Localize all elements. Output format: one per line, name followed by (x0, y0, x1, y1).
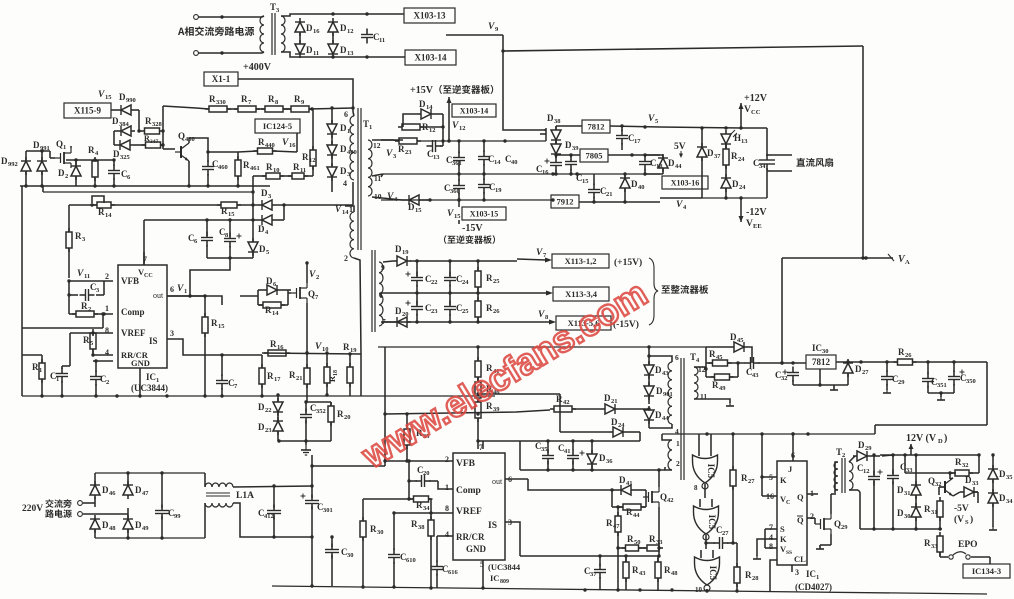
wire Q42 source (657, 507, 660, 558)
svg-text:990: 990 (126, 97, 136, 104)
node V5 (648, 114, 659, 125)
svg-text:15: 15 (454, 213, 461, 220)
svg-text:S: S (780, 524, 785, 534)
svg-text:D: D (655, 365, 662, 375)
transistor Q42 mosfet (643, 487, 674, 507)
svg-text:R: R (712, 380, 719, 390)
wire 12V label stub (909, 444, 914, 455)
wire V3 to R23 (381, 140, 399, 141)
svg-text:20: 20 (344, 414, 351, 421)
svg-text:15: 15 (105, 94, 112, 101)
cap C18 (639, 156, 663, 171)
svg-text:D: D (33, 140, 40, 150)
wire vcc hook (190, 258, 230, 296)
diode D38 inline (551, 126, 561, 144)
svg-text:R: R (370, 524, 377, 534)
svg-text:X1-1: X1-1 (212, 74, 231, 84)
resistor R26 (475, 297, 500, 321)
svg-text:X103-14: X103-14 (415, 53, 447, 63)
svg-text:): ) (944, 433, 947, 444)
diode D29 (853, 440, 872, 461)
resistor R328 (141, 116, 164, 134)
svg-text:C: C (786, 500, 790, 506)
svg-text:D: D (565, 140, 572, 150)
svg-text:V: V (315, 342, 322, 352)
svg-text:Comp: Comp (121, 307, 145, 317)
wire C2 (93, 359, 113, 397)
svg-text:X103-14: X103-14 (460, 107, 488, 116)
label +15V inverter (410, 85, 493, 96)
wire C15b (569, 153, 572, 175)
ic U2 IC809 UC3844 block (445, 443, 521, 585)
svg-text:X103-15: X103-15 (470, 210, 498, 219)
svg-text:K: K (780, 534, 787, 544)
resistor R27 (730, 466, 755, 490)
svg-text:V: V (538, 310, 545, 320)
svg-text:45: 45 (737, 337, 744, 344)
wire Q1 gate (50, 151, 55, 158)
svg-text:R: R (289, 370, 296, 380)
svg-text:24: 24 (618, 422, 625, 429)
resistor R47 (606, 512, 621, 536)
cap C351 (922, 373, 947, 390)
svg-text:(UC3844): (UC3844) (131, 383, 168, 393)
svg-text:EE: EE (753, 223, 762, 230)
diode D21 (601, 393, 619, 414)
svg-text:4: 4 (343, 179, 347, 188)
svg-text:43: 43 (639, 570, 646, 577)
svg-text:2: 2 (676, 459, 680, 468)
watermark elecfans (354, 272, 654, 476)
wire R50 R33 (616, 546, 646, 549)
svg-text:CL: CL (794, 554, 806, 564)
diode D37 zener (697, 143, 721, 161)
svg-text:D: D (604, 393, 611, 403)
svg-text:461: 461 (250, 165, 260, 172)
diode D43 (644, 361, 669, 379)
wire bottom rail (272, 584, 987, 594)
wire CD4027 Q2pin (807, 517, 815, 519)
svg-text:15: 15 (218, 323, 225, 330)
svg-text:43: 43 (752, 372, 759, 379)
svg-text:D: D (306, 23, 313, 33)
resistor R38 (411, 516, 434, 540)
wire D99x bottoms (26, 171, 42, 186)
wire Q7 source (305, 303, 308, 355)
resistor R24 (723, 145, 745, 169)
connector X113-3,4 (553, 287, 609, 301)
label -12V (746, 207, 767, 218)
ground CD4027 (753, 555, 761, 559)
resistor R49 (711, 374, 734, 392)
svg-text:15: 15 (415, 207, 422, 214)
svg-text:12: 12 (459, 125, 466, 132)
cap C12 ecap (857, 463, 883, 486)
cap C16 ecap (536, 157, 562, 177)
transformer T4 primary (668, 353, 679, 436)
cap C19 (478, 179, 502, 195)
svg-text:VFB: VFB (456, 459, 476, 469)
svg-text:616: 616 (448, 569, 459, 576)
resistor R25 (475, 267, 500, 291)
svg-text:37: 37 (714, 153, 721, 160)
wire Q32 collector net (905, 453, 981, 474)
capacitor C7a (216, 375, 238, 391)
cap C301 ecap (301, 494, 333, 515)
wire D31 D30 (915, 455, 917, 529)
svg-text:47: 47 (142, 490, 149, 497)
node V11 (77, 269, 90, 280)
diode D19 (393, 244, 411, 266)
svg-text:VREF: VREF (121, 328, 146, 338)
svg-text:1: 1 (39, 367, 42, 374)
svg-text:Q: Q (928, 476, 935, 486)
svg-text:(CD4027): (CD4027) (795, 582, 832, 592)
svg-text:D: D (58, 168, 65, 178)
rail -15 out (383, 320, 517, 323)
svg-text:351: 351 (937, 382, 947, 389)
label AC bypass 1 (45, 499, 71, 508)
wire C610 (392, 511, 395, 587)
capacitor C6b (188, 232, 213, 247)
svg-text:out: out (492, 477, 503, 486)
wire R31 (938, 501, 941, 531)
svg-text:38: 38 (418, 524, 425, 531)
wire pin7b (478, 441, 483, 449)
svg-text:R: R (664, 565, 671, 575)
wire R36b out (913, 360, 987, 363)
svg-text:34: 34 (759, 163, 766, 170)
node V12 (452, 121, 466, 132)
svg-text:42: 42 (667, 497, 674, 504)
label 12V VD (906, 433, 947, 445)
wire bridge input right (332, 33, 334, 43)
svg-text:361: 361 (452, 160, 462, 167)
svg-text:2: 2 (105, 272, 109, 281)
svg-text:D: D (858, 440, 865, 450)
svg-text:D: D (965, 475, 972, 485)
wire mid from T1 8 (380, 294, 382, 298)
cap C24 (444, 272, 469, 287)
svg-text:4: 4 (675, 427, 679, 436)
wire D6 R14 pair (240, 290, 291, 305)
svg-text:1: 1 (63, 144, 66, 151)
svg-text:47: 47 (613, 523, 620, 530)
rail V4 fan (660, 174, 702, 198)
wire R38 bottom (430, 536, 432, 588)
wire R2 to comp (69, 312, 113, 315)
capacitor C3 (80, 282, 101, 301)
svg-text:49: 49 (719, 385, 726, 392)
svg-text:D: D (258, 422, 265, 432)
svg-text:14: 14 (426, 104, 433, 111)
svg-text:8: 8 (694, 484, 698, 492)
resistor R28 (734, 563, 759, 587)
svg-text:16: 16 (542, 169, 549, 176)
svg-text:20: 20 (402, 311, 409, 318)
svg-text:SS: SS (786, 550, 792, 556)
wire H bottom rail segs (662, 432, 875, 435)
wire gate2 io (704, 535, 707, 549)
svg-text:): ) (970, 514, 973, 525)
svg-text:D: D (395, 244, 402, 254)
capacitor C99 (155, 505, 181, 521)
svg-text:3: 3 (170, 329, 174, 338)
wire C33 (882, 455, 893, 529)
svg-text:11: 11 (84, 273, 90, 280)
wire C37 (598, 554, 601, 590)
wire C35 C41 rail (483, 439, 640, 454)
svg-text:22: 22 (265, 407, 272, 414)
svg-text:23: 23 (405, 149, 412, 156)
diode D27 (843, 359, 869, 377)
svg-text:384: 384 (119, 121, 130, 128)
svg-text:46: 46 (109, 490, 116, 497)
diode D15 (405, 195, 423, 214)
svg-text:R: R (302, 152, 309, 162)
svg-text:D: D (340, 23, 347, 33)
wire C6a (113, 160, 115, 186)
wire R14a (69, 203, 221, 206)
svg-text:D: D (113, 149, 120, 159)
svg-text:2: 2 (445, 455, 449, 464)
svg-text:4: 4 (769, 533, 773, 542)
node V1 (177, 284, 187, 295)
wire mid border vert (383, 347, 386, 466)
wire D38 to 7812 (544, 126, 582, 130)
wire R col (476, 347, 479, 449)
svg-text:2: 2 (344, 254, 348, 263)
resistor R15m (202, 313, 225, 337)
cap C14 (478, 151, 501, 167)
resistor R12b (398, 122, 436, 134)
svg-text:Comp: Comp (456, 486, 481, 496)
wire vert 875 (875, 425, 879, 434)
transformer T3 (260, 2, 300, 57)
svg-text:R: R (411, 519, 418, 529)
svg-text:D: D (730, 332, 737, 342)
wire D38 col (554, 126, 557, 176)
wire C301 (310, 466, 313, 585)
svg-text:460: 460 (218, 164, 228, 171)
regulator IC30 7812 (806, 355, 836, 369)
svg-text:2: 2 (810, 512, 814, 521)
wire R27 (732, 434, 734, 543)
cap C37 (584, 564, 606, 579)
svg-text:991: 991 (40, 145, 50, 152)
wire R15a (237, 203, 258, 206)
gate U5b (694, 506, 719, 540)
diode D325 (113, 140, 134, 161)
wire C30 (330, 535, 333, 586)
wire 7912 out (579, 200, 660, 203)
svg-text:12: 12 (309, 157, 316, 164)
wire -15v arrow (458, 220, 460, 224)
node V7 (536, 248, 547, 259)
svg-text:D: D (119, 92, 126, 102)
svg-text:R: R (267, 371, 274, 381)
svg-text:V: V (177, 284, 184, 294)
rail V4 main (381, 198, 553, 201)
svg-text:D: D (135, 485, 142, 495)
capacitor C412 (258, 505, 281, 521)
svg-text:350: 350 (966, 378, 976, 385)
svg-text:1: 1 (56, 376, 59, 383)
wire Q1 row (66, 158, 116, 161)
wire D29 out (871, 455, 880, 457)
svg-text:D: D (611, 417, 618, 427)
svg-text:R: R (221, 206, 228, 216)
svg-text:16: 16 (289, 142, 296, 149)
wire bridge2 top (95, 471, 205, 485)
wire V9 vertical (446, 35, 546, 130)
transformer T2 label (836, 447, 845, 459)
transformer T1 sec1 (368, 140, 382, 201)
label gate pin10 (695, 586, 703, 594)
cap C41 ecap (558, 443, 585, 465)
svg-text:D: D (102, 485, 109, 495)
cap C29 (881, 371, 905, 387)
wire gate3 io (705, 589, 708, 593)
svg-text:IC124-5: IC124-5 (263, 121, 292, 131)
svg-text:26: 26 (905, 352, 912, 359)
label to rectifier board (661, 285, 708, 294)
wire D24b (560, 394, 640, 441)
wire R4 (94, 160, 96, 186)
svg-text:D: D (261, 188, 268, 198)
wire D3 to T1 pin4 (276, 182, 353, 205)
wire w9 (383, 261, 393, 262)
wire -5V stub (977, 500, 979, 503)
wire C460 R461 top (206, 150, 238, 162)
svg-text:21: 21 (606, 191, 613, 198)
diode D990 (117, 92, 136, 115)
diode D44a (658, 154, 682, 172)
svg-text:24: 24 (462, 279, 469, 286)
wire 12V rail (872, 453, 979, 456)
resistor R39 (475, 398, 500, 422)
svg-text:24: 24 (739, 184, 746, 191)
wire arrow X113-34 (517, 291, 553, 296)
svg-text:33: 33 (656, 539, 663, 546)
wire mid border rail (378, 345, 706, 348)
svg-text:D: D (855, 364, 862, 374)
svg-text:CC: CC (751, 109, 761, 116)
wire T1 7 lead (381, 321, 393, 323)
capacitor C1 (50, 368, 68, 384)
svg-text:1: 1 (816, 574, 819, 581)
svg-text:Q: Q (308, 289, 315, 299)
svg-text:R: R (209, 94, 216, 104)
diode D33 (960, 475, 979, 497)
svg-text:R: R (270, 339, 277, 349)
svg-text:R: R (81, 301, 88, 311)
svg-text:R: R (709, 349, 716, 359)
diode D41 (617, 475, 635, 495)
node V9 (488, 22, 499, 33)
node V4 (387, 192, 398, 203)
wire vcc rail 220 (144, 218, 255, 265)
svg-text:17: 17 (274, 376, 281, 383)
wire 220 top2 (94, 503, 96, 507)
wire Q42 drain (658, 470, 660, 487)
svg-text:99: 99 (174, 513, 181, 520)
transistor Q1 mosfet (55, 139, 71, 168)
resistor R12v (302, 146, 316, 170)
transformer T1 label (363, 119, 372, 131)
wire AC input bottom (198, 51, 262, 54)
cap C22 ecap (406, 272, 438, 287)
diode D3a (258, 188, 276, 210)
svg-text:D: D (655, 410, 662, 420)
svg-text:23: 23 (431, 308, 438, 315)
resistor R31 (924, 497, 943, 521)
svg-text:D: D (266, 276, 273, 286)
rail mid main (383, 172, 660, 175)
wire C23 C25 R26 bottoms (417, 293, 478, 322)
transformer T4 low (668, 439, 680, 470)
cap C32 ecap (775, 367, 799, 383)
capacitor C13 (427, 140, 442, 161)
resistor R36b (894, 347, 917, 365)
diode D13 (328, 40, 354, 58)
wire R17 bottom (260, 355, 263, 398)
wire C412 (273, 486, 275, 537)
wire R42c (572, 408, 601, 410)
svg-text:V: V (77, 269, 84, 279)
svg-text:2: 2 (842, 452, 845, 459)
svg-text:22: 22 (431, 279, 438, 286)
svg-text:R: R (32, 362, 39, 372)
svg-text:S: S (965, 519, 969, 526)
wire C35 C41 bottom (520, 441, 665, 472)
wire R30 (362, 499, 364, 587)
svg-text:GND: GND (131, 358, 150, 368)
svg-text:D: D (102, 520, 109, 530)
connector X113-5,6 (556, 316, 611, 330)
wire CD4027 Q1pin (807, 493, 818, 495)
svg-text:R: R (98, 207, 105, 217)
svg-text:CC: CC (144, 273, 153, 279)
wire R440 (238, 133, 297, 152)
label -5V VS (954, 504, 973, 526)
wire right-edge vertical (862, 46, 864, 258)
wire +15V arrow (447, 97, 452, 143)
wire C12 (858, 455, 874, 529)
wire Q7 drain (305, 261, 308, 283)
svg-text:D: D (340, 45, 347, 55)
svg-text:34: 34 (423, 505, 430, 512)
wire R1 (22, 355, 44, 398)
svg-text:9: 9 (381, 263, 385, 272)
svg-text:19: 19 (350, 347, 357, 354)
svg-text:12: 12 (429, 127, 436, 134)
capacitor C43 (745, 357, 760, 379)
wire lower startup rail (43, 186, 253, 192)
resistor R16 (264, 339, 290, 356)
svg-text:out: out (153, 291, 164, 300)
svg-text:16: 16 (277, 344, 284, 351)
svg-text:R: R (486, 303, 493, 313)
svg-text:Q: Q (797, 492, 804, 502)
svg-text:12V (V: 12V (V (906, 433, 937, 444)
diode D23 zener (258, 417, 283, 435)
wire VA drop (780, 258, 783, 365)
svg-text:21: 21 (296, 375, 303, 382)
svg-text:Q: Q (834, 519, 841, 529)
svg-text:R: R (343, 342, 350, 352)
svg-text:26: 26 (493, 308, 500, 315)
